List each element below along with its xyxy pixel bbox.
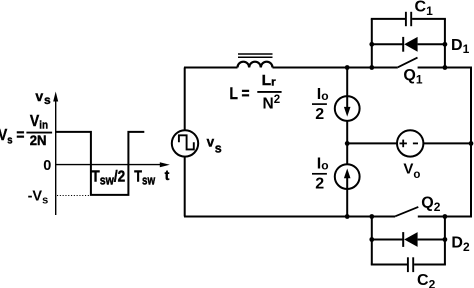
junction node bottom line right of Q2 [443, 214, 448, 219]
switch Q2 [395, 207, 418, 216]
svg-text:Io: Io [317, 86, 329, 103]
t-axis [56, 162, 170, 167]
svg-text:Vin: Vin [30, 113, 48, 131]
svg-text:t: t [165, 168, 170, 183]
svg-text:Q1: Q1 [403, 67, 422, 87]
wire top right [418, 67, 471, 69]
capacitor C2 [371, 257, 446, 272]
svg-text:C1: C1 [415, 0, 434, 18]
junction node at top of center branch [345, 65, 350, 70]
current source Io/2 upper (down arrow) [335, 96, 360, 121]
label Io/2 lower [312, 155, 329, 192]
svg-text:2: 2 [315, 106, 324, 123]
svg-text:C2: C2 [417, 272, 436, 288]
label Io/2 upper [312, 86, 329, 123]
svg-text:vs: vs [207, 135, 222, 156]
source vs (square-wave source) [172, 130, 198, 156]
svg-text:2N: 2N [30, 133, 47, 148]
wire center branch lower [346, 189, 348, 217]
svg-text:Vo: Vo [403, 160, 420, 181]
wire left branch lower [184, 156, 186, 216]
svg-text:vs: vs [35, 88, 51, 107]
v-axis (vs waveform plot) [53, 92, 58, 216]
svg-text:Lr: Lr [262, 73, 277, 89]
wire stub bottom-left of D2/C2 block [371, 217, 373, 265]
diode D2 [372, 232, 445, 247]
svg-text:Q2: Q2 [421, 195, 440, 215]
svg-text:Tsw/2: Tsw/2 [91, 168, 125, 187]
svg-text:D2: D2 [451, 234, 470, 254]
label L = Lr/N^2 [230, 73, 282, 112]
wire right branch [470, 67, 472, 218]
svg-text:N2: N2 [263, 94, 281, 113]
wire Vo left [347, 142, 397, 144]
wire top left [184, 67, 238, 69]
svg-text:-Vs: -Vs [28, 188, 49, 206]
junction node bottom line left of Q2 [369, 214, 374, 219]
svg-text:Io: Io [317, 155, 329, 172]
wire center branch upper [346, 68, 348, 97]
svg-text:Vs =: Vs = [0, 127, 25, 147]
svg-text:Tsw: Tsw [134, 168, 155, 187]
junction node Vo right [469, 141, 474, 146]
svg-text:L =: L = [230, 84, 250, 103]
wire stub bottom-right of D2/C2 block [444, 217, 446, 265]
diode D1 [372, 37, 445, 52]
junction node top line left of Q1 [369, 65, 374, 70]
vs waveform trace [56, 132, 144, 195]
junction node top line right of Q1 [443, 65, 448, 70]
svg-text:0: 0 [43, 158, 51, 174]
wire bottom right [418, 216, 471, 218]
capacitor C1 [371, 12, 446, 26]
wire top mid [273, 67, 398, 69]
source Vo [397, 130, 423, 156]
junction node D2 right [443, 237, 448, 242]
wire center branch middle [346, 121, 348, 165]
dotted level line at -Vs [57, 195, 90, 197]
junction node D1 left [369, 42, 374, 47]
svg-text:D1: D1 [451, 37, 470, 56]
junction node D1 right [443, 42, 448, 47]
wire left branch upper [184, 68, 186, 131]
wire stub top-right of C1/D1 block [444, 19, 446, 68]
svg-text:2: 2 [315, 176, 324, 193]
junction node bottom of center branch [345, 214, 350, 219]
wire bottom left [184, 216, 395, 218]
wire stub top-left of C1/D1 block [371, 19, 373, 68]
junction node D2 left [369, 237, 374, 242]
junction node center branch mid [345, 141, 350, 146]
label Vs = Vin/2N [0, 113, 52, 148]
switch Q1 [398, 58, 418, 68]
wire Vo right [423, 142, 471, 144]
inductor L [238, 54, 273, 68]
current source Io/2 lower (up arrow) [335, 164, 360, 189]
